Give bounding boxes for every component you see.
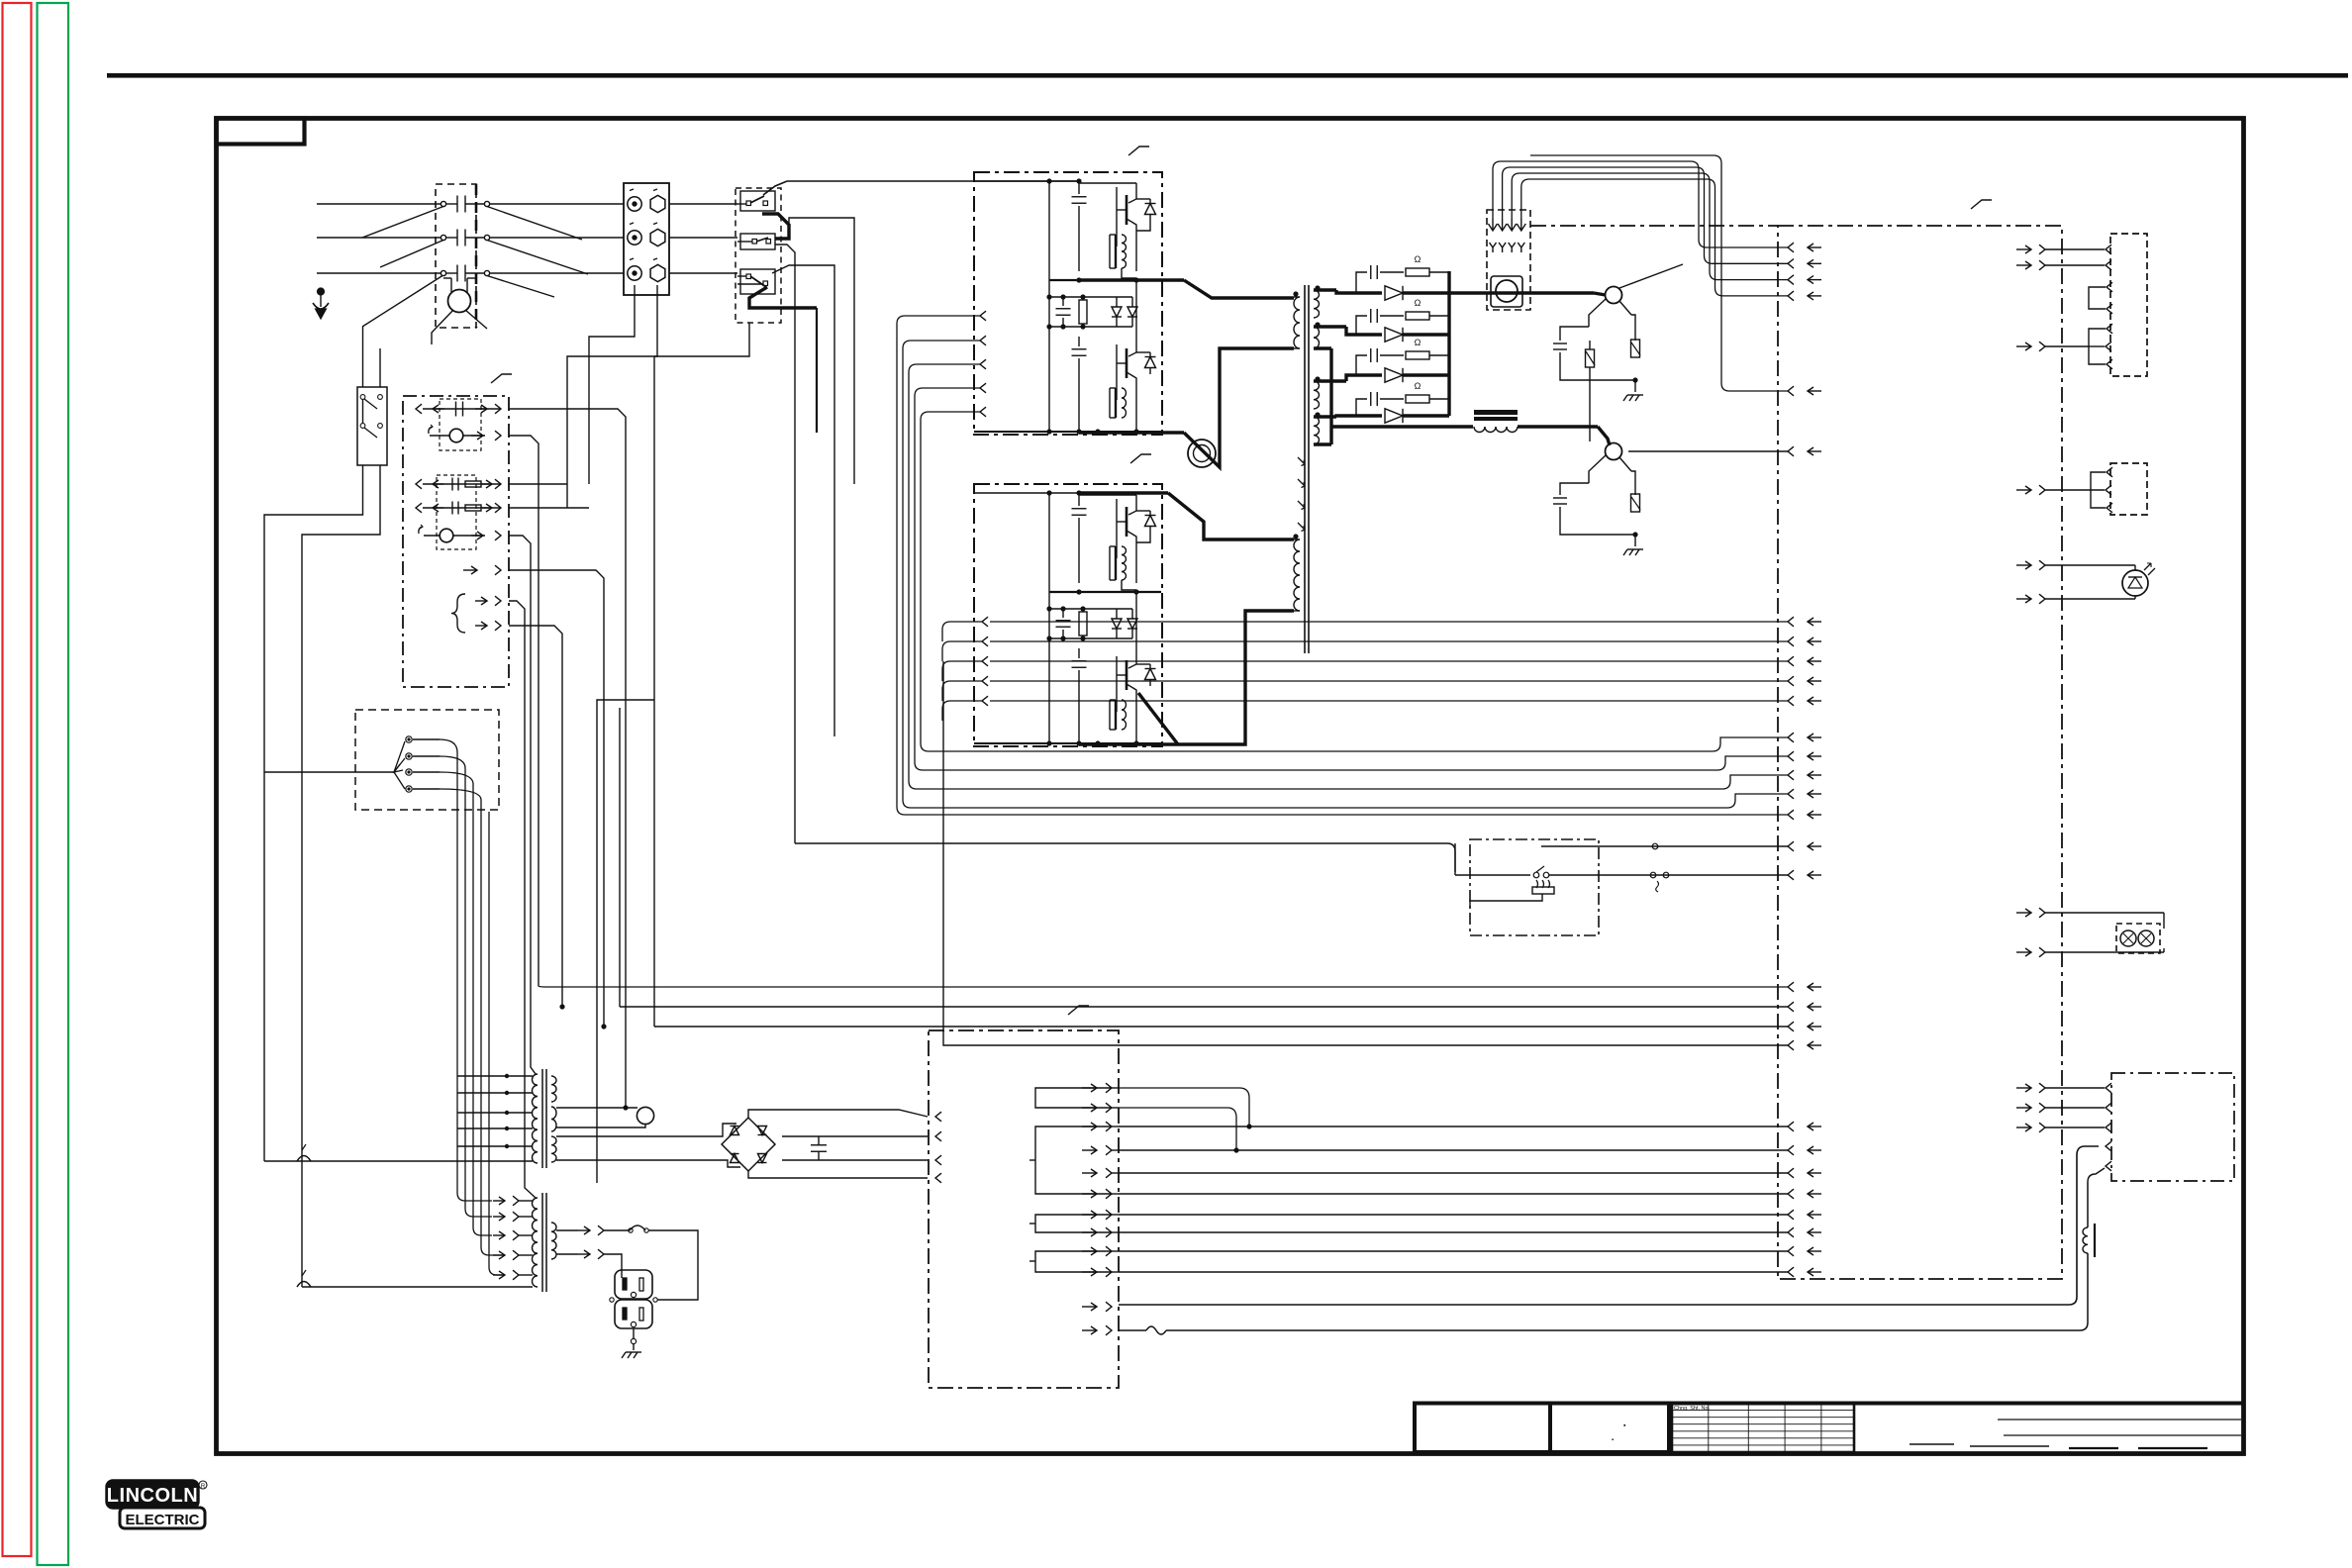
main transformer primary B xyxy=(1293,534,1300,611)
bridge rectifier BR1 xyxy=(722,1118,775,1171)
wire T1 primary taps xyxy=(264,1074,533,1161)
wire fan row5 xyxy=(509,536,536,1074)
wire fan row1 xyxy=(509,409,629,1111)
svg-text:Ω: Ω xyxy=(1415,298,1421,308)
wire fan row2 xyxy=(509,436,539,986)
top rule xyxy=(107,73,2348,78)
output terminal negative xyxy=(1589,443,1631,484)
wire control lower group xyxy=(539,661,1821,1050)
current transducer CT1 and fan plug xyxy=(1487,210,1530,310)
wire T2 primary taps xyxy=(493,1196,533,1280)
wire range switch feed xyxy=(264,771,394,773)
range switch S1 xyxy=(394,736,440,792)
wire T2 bottom tap xyxy=(297,1270,533,1287)
wire TB down 2 xyxy=(567,285,657,508)
wire aux top run xyxy=(1530,155,1821,396)
thermostat box TP1 heater H1 xyxy=(1455,839,1788,935)
wire crossover left xyxy=(362,207,443,328)
wire output sense pos xyxy=(1619,264,1683,288)
wire gate bundle board2 xyxy=(942,617,1821,721)
border corner tab xyxy=(217,119,305,145)
toroid CT2 xyxy=(1188,440,1216,467)
wire input line L3 xyxy=(317,265,624,282)
connector remote bottom xyxy=(2016,1073,2234,1181)
contactor coil CR1 xyxy=(432,278,487,344)
wire bridge AC feeds xyxy=(0,0,1,1)
callout control board xyxy=(1971,200,1992,209)
connector aux 2 xyxy=(2016,463,2147,515)
aux transformer T1 xyxy=(533,1069,557,1168)
wire feeder bottom 1 xyxy=(1119,1146,2099,1305)
wire TB down 1 xyxy=(589,285,635,484)
wire T1 42V xyxy=(556,1124,740,1167)
wire positive bus bold xyxy=(1449,293,1606,295)
wire reconnect to board1 top xyxy=(763,181,1079,195)
reconnect link plate 3 xyxy=(740,269,775,294)
Lincoln Electric logo xyxy=(107,1481,207,1528)
wire door sw feeds xyxy=(363,327,381,387)
wire output sense neg xyxy=(1628,446,1821,456)
output terminal positive xyxy=(1589,287,1631,328)
output diodes D1-D4 xyxy=(1385,286,1449,423)
main transformer secondaries xyxy=(1314,285,1321,444)
main transformer core xyxy=(1305,285,1309,653)
svg-text:LINCOLN: LINCOLN xyxy=(107,1485,198,1507)
wire door sw down left xyxy=(264,465,363,1161)
wire bridge DC out xyxy=(748,1110,941,1183)
wire T2 secondary receptacle feed xyxy=(556,1225,698,1278)
wire reconnect link bold 2 xyxy=(749,287,817,308)
wire thermostat feed xyxy=(795,843,1455,872)
callout fan box xyxy=(491,374,512,383)
border frame xyxy=(217,119,2244,1454)
registration bar red xyxy=(3,3,32,1556)
svg-text:Chng. Sht. No.: Chng. Sht. No. xyxy=(1674,1406,1711,1412)
door interlock switch S2 xyxy=(357,387,387,465)
snubber networks RC xyxy=(1356,254,1449,416)
main transformer primary A xyxy=(1293,291,1300,348)
aux transformer T2 xyxy=(533,1193,557,1292)
wire diode cathode bus xyxy=(1447,271,1450,416)
wirefeeder pins xyxy=(1029,1083,1119,1335)
wire fan row3 xyxy=(509,483,567,485)
svg-text:▪: ▪ xyxy=(1612,1437,1614,1443)
receptacle 115V duplex xyxy=(610,1270,698,1358)
wire fan supply bundle xyxy=(1493,161,1821,301)
wire fan row4 xyxy=(509,507,589,509)
inverter board 1 (dash-dot) xyxy=(974,172,1162,435)
svg-text:Ω: Ω xyxy=(1415,338,1421,347)
wire fan row6 xyxy=(509,570,607,1029)
wire reconnect v x803 xyxy=(775,245,795,843)
svg-text:R: R xyxy=(201,1484,206,1490)
wire jog 603-661 xyxy=(597,323,749,1183)
reconnect switch box (dashed) xyxy=(735,188,781,323)
wire reconnect v x843 xyxy=(772,265,834,736)
wire fan row7 xyxy=(509,601,536,1198)
LED indicator xyxy=(2016,560,2155,604)
pin control TP 884 xyxy=(1788,870,1821,880)
pilot lamps xyxy=(2016,908,2164,957)
connector gas solenoid xyxy=(2016,234,2147,376)
wire feeder bottom 2 xyxy=(1119,1253,2088,1334)
range switch box (dashed) xyxy=(355,710,499,810)
reconnect switch blades xyxy=(737,196,771,287)
ground chassis xyxy=(313,288,329,319)
input filter box CR1 (dashed) xyxy=(436,184,476,328)
wire secondary outputs bold xyxy=(1314,290,1382,444)
wire reconnect v x863 xyxy=(789,218,854,484)
wire primary links bold xyxy=(1079,181,1294,744)
terminal block TB1 xyxy=(624,183,737,295)
callout wirefeeder xyxy=(1068,1006,1089,1015)
wire feeder to control xyxy=(1119,1088,1821,1277)
callout inverter board 2 xyxy=(1130,454,1151,463)
choke bottom right xyxy=(2083,1168,2105,1257)
output snubber negative xyxy=(1553,471,1643,555)
wire fan row8 xyxy=(509,626,565,1010)
registration bar green xyxy=(38,3,69,1565)
wire input line L2 xyxy=(317,230,624,246)
output choke L1 xyxy=(1331,410,1610,445)
reconnect link plate 2 xyxy=(740,234,775,249)
svg-text:Ω: Ω xyxy=(1415,381,1421,391)
varistor mid xyxy=(1586,341,1596,441)
wire door sw down left 2 xyxy=(302,465,380,1287)
wire input line L1 xyxy=(317,196,624,213)
wire range taps xyxy=(440,739,505,1275)
svg-text:Ω: Ω xyxy=(1415,254,1421,264)
wire T2 tap2 xyxy=(0,0,1,1)
wire gate bundle board1 xyxy=(897,311,1821,820)
inverter board 2 (dash-dot) xyxy=(974,484,1162,746)
wire reconnect link bold 1 xyxy=(762,214,789,239)
reconnect link plate 1 xyxy=(740,191,775,211)
wire crossover right xyxy=(487,207,588,298)
output snubber positive xyxy=(1553,315,1643,401)
title block xyxy=(1413,1404,2243,1453)
control board box (dash-dot) xyxy=(1530,226,2062,1279)
fan aux box (dash-dot) xyxy=(403,396,509,687)
fan board internals FM1 FM2 xyxy=(416,399,501,633)
callout inverter board 1 xyxy=(1128,147,1149,155)
svg-text:ELECTRIC: ELECTRIC xyxy=(126,1512,200,1528)
circuit breaker CB1 xyxy=(637,1107,653,1124)
transformer tap arrows xyxy=(1298,457,1305,532)
pin control TP 855 xyxy=(1788,841,1821,851)
wire reconnect v x824 bold xyxy=(816,308,818,433)
wirefeeder box (dash-dot) xyxy=(929,1030,1119,1388)
wire T1 sec CB1 xyxy=(556,1108,645,1127)
